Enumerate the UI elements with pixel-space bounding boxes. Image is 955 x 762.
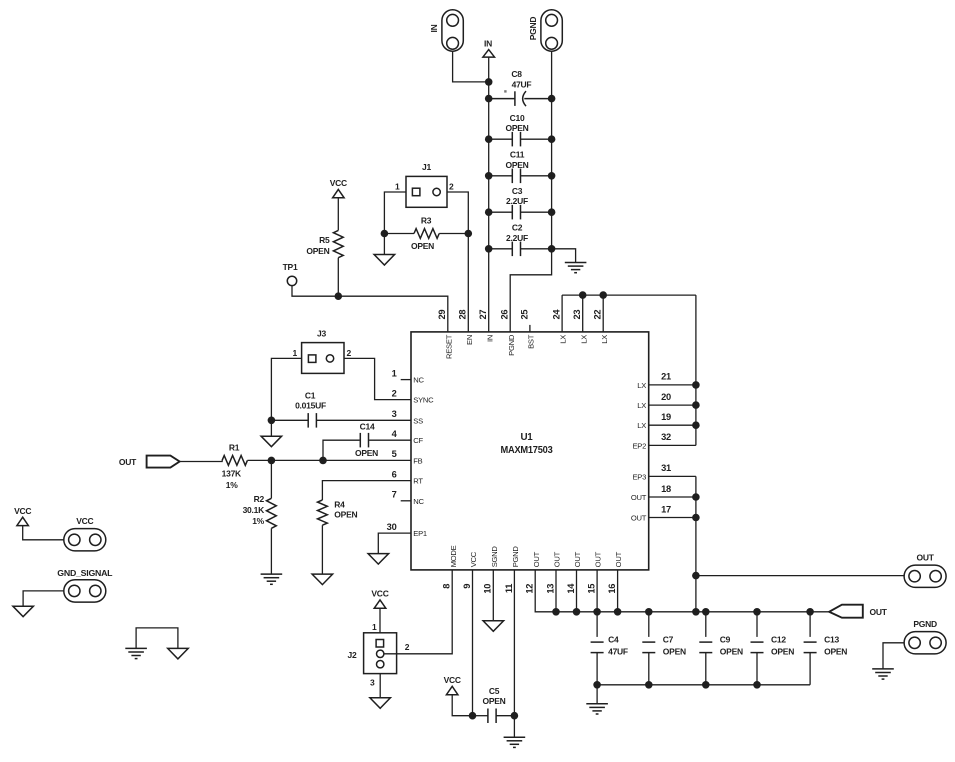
svg-text:2: 2 — [347, 348, 352, 358]
connector J1 — [406, 176, 447, 207]
svg-text:14: 14 — [566, 583, 576, 594]
junction rail C13 — [806, 608, 814, 616]
svg-text:NC: NC — [413, 376, 424, 385]
junction left bus at C10 — [485, 135, 493, 143]
svg-text:CF: CF — [413, 436, 423, 445]
svg-text:IN: IN — [484, 39, 492, 49]
testpoint TP1 — [287, 276, 296, 285]
pin 25 BST stub — [529, 325, 531, 332]
junction rail pin 14 — [573, 608, 581, 616]
junction OUT bus connector tap — [692, 572, 700, 580]
junction LX bus pin 23 — [579, 291, 587, 299]
capacitor C9 OPEN — [699, 642, 712, 653]
junction rail pin 16 — [614, 608, 622, 616]
svg-text:6: 6 — [392, 469, 397, 479]
svg-text:GND_SIGNAL: GND_SIGNAL — [57, 568, 112, 578]
wire SGND pin 10 down — [492, 570, 494, 621]
wire VCC symbol to VCC connector — [23, 526, 64, 540]
wire C13 bottom lead — [809, 653, 811, 685]
junction gnd rail C4 — [593, 681, 601, 689]
svg-text:C3: C3 — [512, 186, 523, 196]
wire LX pin 23 up — [582, 295, 584, 332]
wire junction to ground — [383, 234, 385, 255]
wire GND_SIGNAL connector to ground — [23, 591, 63, 606]
pin 2 pad J1 — [433, 188, 440, 195]
svg-text:U1: U1 — [520, 432, 533, 443]
ground (J2 pin 3) — [370, 698, 391, 709]
svg-text:32: 32 — [661, 432, 671, 442]
svg-text:31: 31 — [661, 463, 671, 473]
junction PGND net at C5 — [511, 712, 519, 720]
svg-text:2: 2 — [392, 388, 397, 398]
svg-text:VCC: VCC — [469, 551, 478, 567]
svg-text:1%: 1% — [226, 480, 238, 490]
svg-text:SGND: SGND — [490, 546, 499, 568]
svg-text:RESET: RESET — [444, 334, 453, 359]
wire J1 pin2 to EN pin 28 — [447, 192, 468, 332]
svg-text:C2: C2 — [512, 223, 523, 233]
power VCC (above J2) — [374, 600, 386, 608]
svg-text:23: 23 — [572, 310, 582, 320]
resistor R5 — [333, 230, 343, 257]
wire ground bridge — [136, 628, 178, 649]
junction left bus at C8 — [485, 95, 493, 103]
wire left lead C11 — [489, 175, 513, 177]
connector VCC — [64, 529, 106, 551]
wire LX pin 24 up — [561, 295, 563, 332]
junction LX bus pin 22 — [599, 291, 607, 299]
svg-text:2: 2 — [449, 182, 454, 192]
capacitor C10 OPEN — [512, 132, 520, 147]
wire right lead C11 — [521, 175, 552, 177]
junction LX bus pin 19 — [692, 421, 700, 429]
svg-text:C4: C4 — [608, 635, 619, 645]
wire J1 pin1 down — [384, 192, 406, 234]
ground (R2) — [261, 574, 283, 584]
ground (input bank SGND-style) — [565, 263, 587, 273]
svg-text:SS: SS — [413, 416, 423, 425]
junction SS net / C1 — [268, 417, 276, 425]
capacitor C1 0.015UF — [308, 413, 316, 428]
ground (GND_SIGNAL) — [13, 606, 34, 617]
svg-text:C13: C13 — [824, 635, 839, 645]
wire LX top bus — [562, 294, 696, 296]
junction OUT bus pin 17 — [692, 514, 700, 522]
port OUT (left feedback tag) — [147, 456, 180, 468]
svg-text:20: 20 — [661, 392, 671, 402]
ground (J3/C1) — [261, 436, 282, 447]
svg-text:1: 1 — [395, 182, 400, 192]
ground (bridge signal side) — [125, 648, 147, 658]
connector J3 — [302, 343, 344, 374]
svg-text:R1: R1 — [229, 443, 240, 453]
svg-text:C12: C12 — [771, 635, 786, 645]
wire OUT pin 16 down — [617, 570, 619, 612]
junction IN bus / connector wire — [485, 78, 493, 86]
wire C7 top lead — [648, 612, 650, 637]
junction rail C7 — [645, 608, 653, 616]
svg-text:2.2UF: 2.2UF — [506, 196, 528, 206]
svg-text:OUT: OUT — [870, 607, 888, 617]
svg-text:R5: R5 — [319, 235, 330, 245]
wire C14 left lead to FB — [323, 440, 360, 460]
wire C1 left lead — [271, 419, 308, 421]
wire C1 right lead to SS pin 3 — [316, 419, 411, 421]
junction right bus at C11 — [548, 172, 556, 180]
junction rail C12 — [753, 608, 761, 616]
junction OUT bus pin 18 — [692, 493, 700, 501]
svg-text:SYNC: SYNC — [413, 396, 434, 405]
wire IN connector to IN net bus — [453, 51, 489, 82]
wire R2 top lead — [270, 460, 272, 498]
svg-text:9: 9 — [462, 584, 472, 589]
ground (output bank) — [586, 704, 608, 714]
resistor R1 — [222, 456, 247, 466]
pin 3 pad J2 — [377, 661, 384, 668]
connector GND_SIGNAL — [64, 580, 106, 602]
connector OUT (output jack) — [904, 565, 946, 587]
wire PGND bus elbow to IC pin 26 — [510, 249, 551, 332]
wire C4 top lead — [596, 612, 598, 637]
svg-text:OPEN: OPEN — [663, 646, 686, 656]
svg-text:12: 12 — [525, 584, 535, 594]
svg-text:OPEN: OPEN — [824, 646, 847, 656]
svg-text:30.1K: 30.1K — [243, 505, 266, 515]
svg-text:VCC: VCC — [330, 178, 347, 188]
capacitor C13 OPEN — [804, 642, 817, 653]
svg-text:OUT: OUT — [119, 457, 137, 467]
wire left lead C2 — [489, 248, 513, 250]
svg-text:0.015UF: 0.015UF — [295, 401, 326, 411]
svg-text:MODE: MODE — [449, 545, 458, 567]
junction gnd rail C9 — [702, 681, 710, 689]
pin 2 pad J3 — [326, 355, 333, 362]
wire IN bus (net arrow down to IC pin 27) — [488, 57, 490, 332]
wire OUT pin 12 down to rail — [535, 570, 829, 612]
svg-text:C9: C9 — [720, 635, 731, 645]
svg-text:C8: C8 — [511, 69, 522, 79]
wire C12 top lead — [756, 612, 758, 637]
svg-text:J1: J1 — [422, 162, 431, 172]
capacitor C5 OPEN — [488, 709, 496, 724]
svg-text:OUT: OUT — [631, 514, 647, 523]
svg-text:OUT: OUT — [532, 551, 541, 567]
svg-text:25: 25 — [519, 310, 529, 320]
connector IN (input banana jack) — [442, 10, 463, 51]
svg-text:LX: LX — [637, 401, 646, 410]
node IN (net arrow) — [483, 50, 495, 58]
wire R3 left lead — [384, 233, 414, 235]
junction J1 pin1 / R3 — [381, 230, 389, 238]
capacitor C14 OPEN — [360, 433, 368, 448]
wire EP1 pin 30 to ground — [378, 533, 411, 554]
pin 21 LX wire — [649, 384, 696, 386]
svg-text:OUT: OUT — [553, 551, 562, 567]
svg-text:VCC: VCC — [444, 675, 461, 685]
svg-text:EP3: EP3 — [632, 472, 646, 481]
svg-text:PGND: PGND — [528, 17, 538, 41]
svg-text:5: 5 — [392, 449, 397, 459]
svg-text:OPEN: OPEN — [771, 646, 794, 656]
pin 18 OUT wire — [649, 496, 696, 498]
svg-text:R2: R2 — [254, 494, 265, 504]
junction left bus at C11 — [485, 172, 493, 180]
svg-text:7: 7 — [392, 490, 397, 500]
svg-text:R3: R3 — [421, 215, 432, 225]
svg-text:VCC: VCC — [371, 589, 388, 599]
ground (J1 pin 1) — [374, 255, 395, 266]
capacitor C8 47UF (polarized) — [489, 91, 552, 106]
svg-text:26: 26 — [500, 310, 510, 320]
svg-text:TP1: TP1 — [283, 262, 298, 272]
svg-text:8: 8 — [442, 584, 452, 589]
svg-text:PGND: PGND — [913, 619, 937, 629]
wire MODE pin 8 down to J2 — [384, 570, 452, 654]
svg-text:3: 3 — [392, 409, 397, 419]
capacitor C3 2.2UF — [512, 205, 520, 220]
wire R4 bottom lead — [321, 525, 323, 574]
junction right bus at C8 — [548, 95, 556, 103]
svg-text:LX: LX — [559, 335, 568, 344]
svg-text:3: 3 — [370, 677, 375, 687]
svg-text:11: 11 — [504, 584, 514, 593]
svg-text:1: 1 — [392, 368, 397, 378]
pin 1 NC stub — [401, 379, 411, 381]
port OUT (right output tag) — [829, 605, 863, 618]
ground (bridge power side) — [168, 648, 189, 659]
power VCC (bottom left) — [17, 517, 29, 525]
svg-text:FB: FB — [413, 456, 422, 465]
wire VCC pin 9 down — [472, 570, 474, 716]
wire VCC to J2 pin1 — [379, 608, 381, 633]
wire right lead C2 — [521, 248, 552, 250]
junction FB net at C14 — [319, 457, 327, 465]
wire R5 to RESET net — [337, 258, 339, 297]
wire LX pin 22 up — [602, 295, 604, 332]
resistor R2 — [267, 498, 277, 528]
svg-text:OPEN: OPEN — [505, 123, 528, 133]
ground (SGND pin 10) — [483, 621, 504, 632]
svg-text:C14: C14 — [360, 421, 375, 431]
wire left lead C10 — [489, 138, 513, 140]
pin 2 pad J2 — [377, 650, 384, 657]
svg-text:24: 24 — [552, 309, 562, 320]
wire LX right bus down to EP2 — [695, 295, 697, 445]
svg-text:PGND: PGND — [511, 546, 520, 568]
wire J3 pin1 down to SS net — [271, 358, 301, 420]
wire OUT pin 14 down — [576, 570, 578, 612]
svg-text:C1: C1 — [305, 391, 316, 401]
wire C5 left lead — [473, 715, 488, 717]
svg-text:OPEN: OPEN — [411, 241, 434, 251]
capacitor C2 2.2UF — [512, 242, 520, 257]
junction EN net at R3 — [465, 230, 473, 238]
svg-text:VCC: VCC — [14, 506, 31, 516]
svg-text:C11: C11 — [510, 150, 525, 160]
wire OUT pin 13 down — [555, 570, 557, 612]
svg-text:NC: NC — [413, 497, 424, 506]
capacitor C11 OPEN — [512, 169, 520, 184]
svg-text:28: 28 — [458, 310, 468, 320]
svg-text:OUT: OUT — [614, 551, 623, 567]
ground (output PGND) — [872, 669, 894, 679]
svg-text:J3: J3 — [317, 328, 326, 338]
svg-text:2.2UF: 2.2UF — [506, 233, 528, 243]
junction right bus at C3 — [548, 208, 556, 216]
svg-text:VCC: VCC — [76, 516, 93, 526]
svg-text:OPEN: OPEN — [306, 246, 329, 256]
svg-text:EN: EN — [465, 335, 474, 345]
wire OUT bus (EP3 down to output rail) — [695, 476, 697, 611]
svg-text:OPEN: OPEN — [334, 510, 357, 520]
svg-text:1: 1 — [293, 348, 298, 358]
pin 20 LX wire — [649, 404, 696, 406]
svg-text:OPEN: OPEN — [355, 448, 378, 458]
resistor R4 — [318, 500, 328, 525]
polarity mark C8 — [504, 90, 506, 92]
svg-text:1%: 1% — [252, 516, 264, 526]
svg-text:22: 22 — [593, 310, 603, 320]
junction left bus at C2 — [485, 245, 493, 253]
junction FB net at R2 — [268, 457, 276, 465]
svg-text:15: 15 — [587, 584, 597, 594]
svg-text:IN: IN — [485, 335, 494, 342]
svg-text:27: 27 — [478, 310, 488, 320]
wire C2 row to input ground — [552, 249, 576, 263]
svg-text:PGND: PGND — [507, 334, 516, 356]
svg-text:137K: 137K — [222, 469, 242, 479]
capacitor C7 OPEN — [642, 642, 655, 653]
connector J2 — [364, 633, 397, 674]
wire C9 top lead — [705, 612, 707, 637]
power VCC (above R5) — [333, 189, 345, 197]
pin 1 pad J1 — [412, 188, 420, 196]
svg-text:2: 2 — [405, 642, 410, 652]
svg-text:21: 21 — [661, 372, 671, 382]
svg-text:C10: C10 — [510, 113, 525, 123]
wire R3 right lead — [439, 233, 468, 235]
wire C12 bottom lead — [756, 653, 758, 685]
wire junction to ground (J3) — [270, 420, 272, 436]
wire OUT bus to OUT connector — [696, 575, 905, 577]
capacitor C4 47UF — [591, 642, 604, 653]
junction gnd rail C12 — [753, 681, 761, 689]
svg-text:IN: IN — [429, 24, 439, 32]
svg-text:OUT: OUT — [594, 551, 603, 567]
junction LX bus pin 21 — [692, 381, 700, 389]
wire VCC to C5 node — [452, 695, 472, 716]
wire OUT pin 15 down — [596, 570, 598, 612]
ground (EP1) — [368, 554, 389, 565]
svg-text:LX: LX — [637, 421, 646, 430]
svg-text:OPEN: OPEN — [505, 160, 528, 170]
pin 7 NC stub — [401, 500, 411, 502]
svg-text:OUT: OUT — [573, 551, 582, 567]
wire PGND pin 11 down — [513, 570, 515, 737]
svg-text:13: 13 — [545, 584, 555, 594]
pin 32 EP2 wire — [649, 444, 696, 446]
pin 17 OUT wire — [649, 517, 696, 519]
wire gnd rail to earth — [596, 685, 598, 704]
svg-text:16: 16 — [607, 584, 617, 594]
svg-text:EP1: EP1 — [413, 529, 427, 538]
pin 1 pad J2 — [376, 640, 384, 648]
capacitor C12 OPEN — [751, 642, 764, 653]
wire J2 pin3 down — [379, 674, 381, 698]
junction VCC net at C5 — [469, 712, 477, 720]
svg-text:RT: RT — [413, 477, 423, 486]
junction rail pin 15 — [593, 608, 601, 616]
junction gnd rail C7 — [645, 681, 653, 689]
svg-text:EP2: EP2 — [632, 441, 646, 450]
wire output ground rail — [597, 684, 810, 686]
svg-text:LX: LX — [579, 335, 588, 344]
svg-text:OPEN: OPEN — [482, 696, 505, 706]
wire PGND bus (connector down to C2 row) — [551, 51, 553, 249]
svg-text:10: 10 — [483, 584, 493, 594]
junction LX bus pin 20 — [692, 401, 700, 409]
wire left lead C3 — [489, 211, 513, 213]
svg-text:18: 18 — [661, 484, 671, 494]
ground (C5/PGND) — [504, 737, 526, 747]
ground (R4) — [312, 574, 333, 585]
wire VCC to R5 — [337, 198, 339, 231]
svg-text:C5: C5 — [489, 686, 500, 696]
wire RT pin 6 to R4 — [322, 481, 411, 500]
junction right bus at C2 — [548, 245, 556, 253]
wire right lead C10 — [521, 138, 552, 140]
svg-text:30: 30 — [387, 522, 397, 532]
junction rail pin 13 — [552, 608, 560, 616]
connector PGND (output ground jack) — [904, 632, 946, 654]
junction OUT bus at rail — [692, 608, 700, 616]
junction rail C9 — [702, 608, 710, 616]
junction left bus at C3 — [485, 208, 493, 216]
connector PGND (input ground jack) — [541, 10, 562, 51]
junction RESET net at R5 — [335, 292, 343, 300]
wire PGND connector to ground — [883, 643, 905, 669]
svg-text:OUT: OUT — [916, 553, 934, 563]
wire C4 bottom lead — [596, 653, 598, 685]
wire C7 bottom lead — [648, 653, 650, 685]
svg-text:BST: BST — [527, 334, 536, 349]
svg-text:1: 1 — [372, 622, 377, 632]
wire J3 pin2 to SYNC pin 2 — [344, 358, 411, 399]
wire TP1 to IC pin 29 — [292, 286, 448, 332]
wire C13 top lead — [809, 612, 811, 637]
svg-text:OPEN: OPEN — [720, 646, 743, 656]
wire C14 right lead to CF pin 4 — [369, 439, 411, 441]
pin 1 pad J3 — [308, 355, 316, 363]
svg-text:4: 4 — [392, 429, 398, 439]
junction right bus at C10 — [548, 135, 556, 143]
op-amp U1 body (MAXM17503 regulator) — [411, 332, 649, 570]
pin 19 LX wire — [649, 424, 696, 426]
wire FB net (R1 to IC pin 5) — [247, 459, 411, 461]
svg-text:19: 19 — [661, 412, 671, 422]
power VCC (at C5) — [446, 686, 458, 694]
svg-text:29: 29 — [437, 310, 447, 320]
wire R2 bottom lead — [270, 528, 272, 574]
svg-text:47UF: 47UF — [512, 79, 532, 89]
svg-text:C7: C7 — [663, 635, 674, 645]
svg-text:J2: J2 — [348, 650, 357, 660]
wire C9 bottom lead — [705, 653, 707, 685]
svg-text:LX: LX — [600, 335, 609, 344]
wire right lead C3 — [521, 211, 552, 213]
svg-text:47UF: 47UF — [608, 646, 628, 656]
resistor R3 — [414, 229, 439, 239]
